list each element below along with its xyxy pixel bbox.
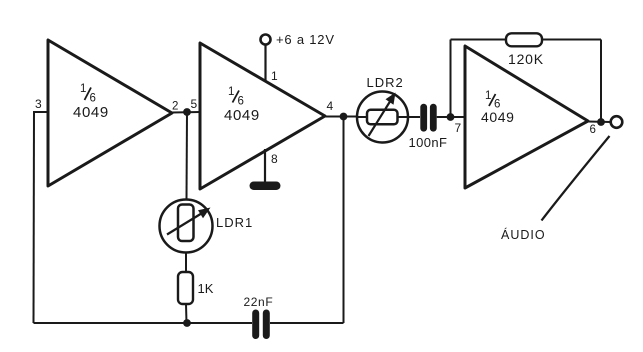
- node dot pin 6: [597, 118, 605, 126]
- svg-text:7: 7: [455, 121, 462, 135]
- LDR2 circle: [357, 92, 408, 143]
- node dot pin 4: [340, 113, 348, 121]
- svg-text:1: 1: [271, 69, 278, 83]
- svg-text:100nF: 100nF: [409, 135, 448, 150]
- svg-text:8: 8: [271, 152, 278, 166]
- node dot bottom junction: [183, 319, 191, 327]
- LDR2 wire through: [357, 116, 420, 118]
- wire pin3 stub: [34, 111, 48, 113]
- wire feedback left vertical: [450, 40, 452, 118]
- supply terminal circle: [261, 35, 271, 45]
- resistor 1K: [178, 272, 193, 304]
- output terminal circle: [611, 116, 623, 128]
- audio pointer line: [542, 136, 610, 221]
- wire LDR1 to 1K: [185, 253, 187, 273]
- wire U2 output: [325, 116, 358, 118]
- wire bottom right segment: [270, 322, 344, 324]
- svg-text:1: 1: [485, 90, 491, 102]
- LDR2 arrow: [369, 102, 391, 137]
- svg-text:4: 4: [327, 99, 334, 113]
- LDR1 arrow: [167, 213, 203, 235]
- svg-text:6: 6: [90, 93, 96, 105]
- svg-text:6: 6: [590, 124, 596, 136]
- LDR1 circle: [160, 200, 213, 253]
- wire 100nF to U3 input: [437, 116, 465, 118]
- wire U3 output: [588, 121, 611, 124]
- LDR2 body rect: [367, 110, 398, 125]
- svg-text:4049: 4049: [73, 104, 109, 121]
- svg-text:1K: 1K: [198, 281, 214, 296]
- LDR1 body rect: [178, 205, 194, 242]
- wire U1 output to U2 input: [172, 111, 200, 114]
- svg-text:4049: 4049: [481, 109, 515, 125]
- svg-text:5: 5: [191, 97, 198, 111]
- capacitor 100nF: [420, 104, 427, 132]
- wire feedback top: [451, 39, 602, 41]
- svg-text:120K: 120K: [508, 51, 544, 67]
- svg-text:1: 1: [228, 86, 234, 98]
- svg-text:ÁUDIO: ÁUDIO: [501, 227, 546, 242]
- wire pin 8: [264, 149, 266, 184]
- svg-text:1: 1: [80, 83, 86, 95]
- svg-text:+6 a 12V: +6 a 12V: [276, 32, 335, 47]
- node dot pin 7: [447, 113, 455, 121]
- node dot pins 2-5: [183, 108, 191, 116]
- wire node to LDR1: [186, 112, 189, 200]
- resistor 120K: [506, 33, 542, 46]
- svg-text:3: 3: [35, 97, 42, 111]
- inverter U2 1/6 4049: [200, 43, 325, 189]
- wire feedback right vertical: [600, 40, 602, 123]
- svg-text:LDR2: LDR2: [367, 75, 404, 90]
- capacitor 22nF: [252, 310, 259, 340]
- svg-text:2: 2: [172, 101, 178, 113]
- wire feedback vertical from pin4 node down: [343, 116, 345, 323]
- wire 1K to bottom: [185, 304, 188, 323]
- svg-text:4049: 4049: [224, 107, 260, 124]
- wire pin 1: [264, 45, 266, 81]
- svg-text:LDR1: LDR1: [216, 215, 253, 230]
- wire left vertical: [33, 111, 36, 323]
- svg-text:22nF: 22nF: [244, 295, 274, 309]
- ground bar: [250, 182, 281, 191]
- inverter U1 1/6 4049: [48, 40, 172, 186]
- inverter U3 1/6 4049: [465, 46, 588, 188]
- wire bottom left segment: [34, 322, 253, 324]
- svg-text:6: 6: [238, 96, 244, 108]
